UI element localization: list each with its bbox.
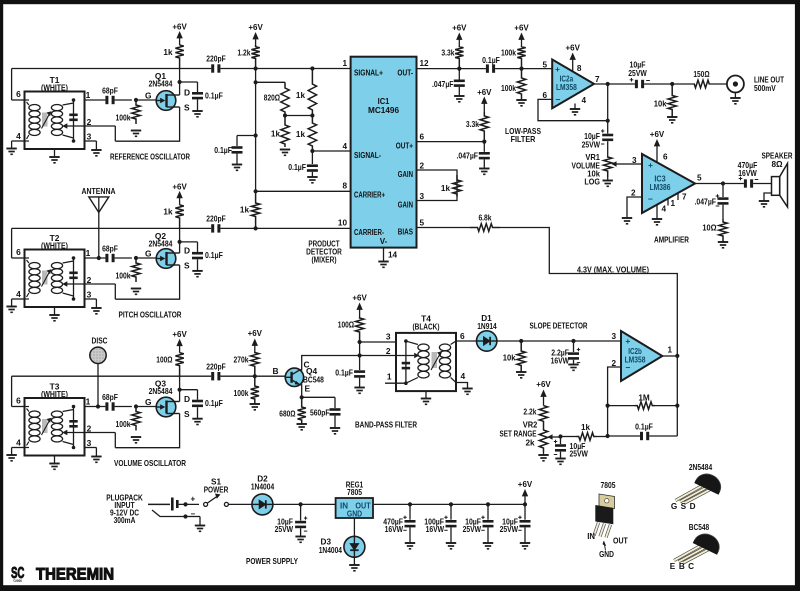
svg-text:LM358: LM358	[556, 83, 577, 92]
svg-text:0.1µF: 0.1µF	[635, 423, 653, 432]
svg-text:2: 2	[420, 161, 425, 170]
svg-text:(WHITE): (WHITE)	[41, 240, 68, 250]
svg-text:MC1496: MC1496	[368, 105, 399, 115]
svg-text:25VW: 25VW	[628, 69, 647, 78]
svg-text:0.1µF: 0.1µF	[205, 91, 223, 100]
svg-text:1: 1	[86, 396, 91, 406]
svg-text:+6V: +6V	[477, 87, 492, 97]
svg-text:GND: GND	[599, 550, 614, 559]
svg-text:+: +	[625, 336, 630, 346]
svg-text:+6V: +6V	[352, 292, 367, 302]
svg-text:−: −	[556, 94, 561, 104]
svg-text:E: E	[305, 383, 311, 393]
svg-text:GAIN: GAIN	[398, 200, 413, 209]
svg-text:C: C	[688, 562, 694, 571]
svg-text:S: S	[681, 502, 687, 511]
svg-text:1k: 1k	[163, 208, 173, 217]
svg-text:1.2k: 1.2k	[237, 48, 250, 57]
svg-text:6: 6	[542, 91, 547, 100]
svg-text:1M: 1M	[638, 393, 650, 402]
svg-text:3: 3	[632, 156, 637, 165]
svg-text:GND: GND	[347, 509, 362, 518]
svg-text:2: 2	[631, 188, 636, 197]
svg-text:820Ω: 820Ω	[264, 93, 281, 102]
svg-text:10k: 10k	[503, 353, 516, 362]
svg-text:6: 6	[16, 247, 21, 257]
svg-text:100k: 100k	[116, 271, 131, 280]
svg-text:1: 1	[86, 248, 91, 258]
svg-text:+: +	[555, 64, 560, 74]
svg-text:3: 3	[87, 438, 92, 448]
svg-text:B: B	[272, 366, 278, 376]
svg-text:7805: 7805	[601, 481, 616, 490]
svg-text:G: G	[145, 248, 152, 258]
svg-text:1k: 1k	[296, 91, 306, 100]
svg-text:LM386: LM386	[650, 183, 671, 192]
svg-text:(WHITE): (WHITE)	[41, 82, 68, 92]
svg-text:THEREMIN: THEREMIN	[36, 565, 114, 584]
svg-text:CARRIER+: CARRIER+	[354, 190, 385, 199]
svg-text:+6V: +6V	[518, 479, 533, 489]
svg-text:0.1µF: 0.1µF	[205, 399, 223, 408]
svg-text:8Ω: 8Ω	[771, 160, 783, 169]
svg-text:SIGNAL+: SIGNAL+	[354, 68, 383, 77]
svg-text:S: S	[184, 260, 190, 270]
svg-text:560pF: 560pF	[310, 408, 330, 417]
svg-text:+6V: +6V	[172, 329, 187, 339]
svg-text:1k: 1k	[296, 130, 306, 139]
svg-text:+6V: +6V	[566, 42, 581, 52]
svg-text:1: 1	[668, 345, 673, 354]
svg-text:4: 4	[342, 142, 347, 151]
svg-text:25VW: 25VW	[500, 525, 519, 534]
svg-text:1k: 1k	[441, 184, 451, 193]
svg-text:6: 6	[420, 132, 425, 141]
svg-text:D: D	[184, 87, 190, 97]
svg-text:−: −	[191, 509, 196, 518]
svg-text:3: 3	[420, 192, 425, 201]
svg-text:6: 6	[460, 331, 465, 341]
svg-text:8: 8	[577, 64, 582, 73]
svg-text:4: 4	[16, 438, 21, 448]
svg-text:3.3k: 3.3k	[441, 48, 454, 57]
svg-text:BAND-PASS FILTER: BAND-PASS FILTER	[355, 419, 417, 429]
svg-text:7: 7	[682, 192, 687, 201]
svg-text:+6V: +6V	[650, 129, 665, 139]
svg-text:AMPLIFIER: AMPLIFIER	[654, 235, 689, 244]
svg-text:S: S	[184, 102, 190, 112]
svg-text:5: 5	[542, 60, 547, 69]
svg-text:100Ω: 100Ω	[156, 356, 173, 365]
svg-text:14: 14	[388, 250, 398, 259]
svg-text:68pF: 68pF	[102, 244, 118, 253]
svg-text:8: 8	[342, 181, 347, 190]
svg-text:LOG: LOG	[584, 177, 600, 186]
svg-text:OUT+: OUT+	[396, 141, 413, 150]
svg-text:6: 6	[16, 89, 21, 99]
svg-text:1: 1	[387, 371, 392, 381]
svg-text:E: E	[670, 562, 676, 571]
svg-text:B: B	[679, 562, 685, 571]
svg-text:0.1µF: 0.1µF	[205, 251, 223, 260]
svg-text:4: 4	[16, 131, 21, 141]
svg-text:SET RANGE: SET RANGE	[500, 429, 537, 438]
svg-text:G: G	[145, 90, 152, 100]
svg-text:16VW: 16VW	[385, 525, 404, 534]
svg-text:G: G	[145, 397, 152, 407]
svg-text:.047µF: .047µF	[432, 80, 454, 89]
svg-text:OUT-: OUT-	[397, 68, 413, 77]
svg-text:3: 3	[87, 290, 92, 300]
svg-text:16VW: 16VW	[426, 525, 445, 534]
svg-text:0.1µF: 0.1µF	[214, 146, 232, 155]
svg-text:3: 3	[386, 331, 391, 341]
svg-text:3: 3	[87, 132, 92, 142]
svg-text:+6V: +6V	[172, 21, 187, 31]
svg-text:ANTENNA: ANTENNA	[82, 186, 116, 196]
svg-text:100Ω: 100Ω	[338, 320, 355, 329]
svg-text:10Ω: 10Ω	[702, 223, 716, 232]
svg-text:16VW: 16VW	[738, 169, 757, 178]
svg-text:220pF: 220pF	[206, 362, 226, 371]
svg-text:BIAS: BIAS	[398, 227, 414, 236]
svg-text:25VW: 25VW	[582, 140, 601, 149]
svg-text:1k: 1k	[240, 205, 250, 214]
svg-text:150Ω: 150Ω	[693, 70, 710, 79]
svg-text:100k: 100k	[116, 113, 131, 122]
svg-text:FILTER: FILTER	[511, 135, 536, 144]
svg-text:6: 6	[16, 395, 21, 405]
svg-text:POWER: POWER	[204, 485, 229, 494]
svg-text:500mV: 500mV	[754, 84, 776, 93]
svg-text:REFERENCE OSCILLATOR: REFERENCE OSCILLATOR	[110, 151, 190, 161]
svg-text:12: 12	[420, 59, 430, 68]
svg-text:7805: 7805	[347, 488, 362, 497]
svg-text:6.8k: 6.8k	[478, 213, 491, 222]
svg-text:1k: 1k	[581, 423, 591, 432]
svg-text:300mA: 300mA	[114, 516, 136, 525]
svg-text:1N914: 1N914	[477, 322, 497, 331]
svg-text:1: 1	[342, 59, 347, 68]
svg-text:6: 6	[663, 152, 668, 161]
svg-text:1k: 1k	[163, 48, 173, 57]
svg-text:S: S	[184, 409, 190, 419]
svg-text:1: 1	[86, 90, 91, 100]
svg-text:SLOPE DETECTOR: SLOPE DETECTOR	[530, 321, 588, 330]
svg-text:5: 5	[697, 173, 702, 182]
svg-text:68pF: 68pF	[102, 86, 118, 95]
svg-text:100k: 100k	[234, 389, 249, 398]
svg-text:2k: 2k	[525, 438, 535, 447]
svg-text:2N5484: 2N5484	[149, 386, 173, 396]
svg-text:BC548: BC548	[303, 374, 324, 384]
svg-text:1: 1	[671, 199, 676, 208]
svg-text:G: G	[671, 502, 677, 511]
svg-text:220pF: 220pF	[206, 215, 226, 224]
svg-text:25VW: 25VW	[275, 525, 294, 534]
svg-text:+6V: +6V	[452, 22, 467, 32]
svg-text:V-: V-	[380, 237, 388, 246]
svg-text:PITCH OSCILLATOR: PITCH OSCILLATOR	[119, 309, 182, 319]
svg-text:1N4004: 1N4004	[251, 482, 275, 491]
svg-text:©2000: ©2000	[13, 579, 22, 583]
svg-text:1N4004: 1N4004	[319, 546, 343, 555]
svg-text:IN: IN	[587, 532, 595, 541]
svg-text:7: 7	[595, 75, 600, 84]
svg-text:2N5484: 2N5484	[689, 463, 713, 472]
svg-text:+6V: +6V	[248, 328, 263, 338]
svg-text:(BLACK): (BLACK)	[413, 321, 440, 331]
svg-text:.047µF: .047µF	[457, 151, 479, 160]
svg-text:(WHITE): (WHITE)	[41, 389, 68, 399]
svg-text:25VW: 25VW	[570, 449, 589, 458]
svg-text:4: 4	[16, 289, 21, 299]
svg-text:4: 4	[461, 371, 466, 381]
svg-text:+: +	[648, 160, 653, 170]
svg-text:2N5484: 2N5484	[149, 78, 173, 88]
svg-text:680Ω: 680Ω	[279, 409, 296, 418]
svg-text:100k: 100k	[116, 420, 131, 429]
svg-text:220pF: 220pF	[206, 55, 226, 64]
svg-text:25VW: 25VW	[463, 525, 482, 534]
svg-text:VR2: VR2	[523, 420, 538, 429]
svg-text:+6V: +6V	[514, 22, 529, 32]
svg-text:2.2k: 2.2k	[523, 407, 536, 416]
svg-text:68pF: 68pF	[102, 393, 118, 402]
svg-text:16VW: 16VW	[551, 356, 570, 365]
svg-text:2N5484: 2N5484	[149, 238, 173, 248]
svg-text:0.1µF: 0.1µF	[288, 163, 306, 172]
svg-text:GAIN: GAIN	[398, 170, 413, 179]
svg-text:OUT: OUT	[613, 537, 628, 546]
svg-text:D: D	[184, 245, 190, 255]
svg-text:.047µF: .047µF	[695, 197, 717, 206]
svg-text:POWER SUPPLY: POWER SUPPLY	[246, 557, 298, 566]
svg-text:−: −	[648, 194, 653, 204]
svg-text:−: −	[626, 362, 631, 372]
svg-text:100k: 100k	[501, 48, 516, 57]
svg-text:3.3k: 3.3k	[466, 120, 479, 129]
svg-text:10: 10	[338, 218, 348, 227]
svg-text:+6V: +6V	[536, 379, 551, 389]
svg-text:1k: 1k	[271, 129, 281, 138]
svg-text:BC548: BC548	[689, 523, 710, 532]
svg-text:D: D	[690, 502, 696, 511]
svg-text:+6V: +6V	[248, 22, 263, 32]
svg-text:4.3V (MAX. VOLUME): 4.3V (MAX. VOLUME)	[577, 265, 649, 274]
svg-text:4: 4	[662, 204, 667, 213]
svg-text:0.1µF: 0.1µF	[335, 368, 353, 377]
svg-text:4: 4	[582, 96, 587, 105]
svg-text:D: D	[184, 394, 190, 404]
svg-text:SIGNAL-: SIGNAL-	[354, 151, 381, 160]
svg-text:(MIXER): (MIXER)	[312, 256, 337, 265]
svg-text:DISC: DISC	[92, 335, 108, 345]
svg-text:2: 2	[386, 346, 391, 356]
svg-text:5: 5	[420, 218, 425, 227]
svg-text:10k: 10k	[654, 99, 667, 108]
svg-text:VOLUME OSCILLATOR: VOLUME OSCILLATOR	[114, 458, 186, 468]
svg-text:100k: 100k	[501, 84, 516, 93]
svg-text:+: +	[191, 494, 196, 503]
svg-text:+6V: +6V	[172, 181, 187, 191]
svg-text:0.1µF: 0.1µF	[482, 56, 500, 65]
svg-text:270k: 270k	[234, 355, 249, 364]
svg-text:3: 3	[611, 332, 616, 341]
